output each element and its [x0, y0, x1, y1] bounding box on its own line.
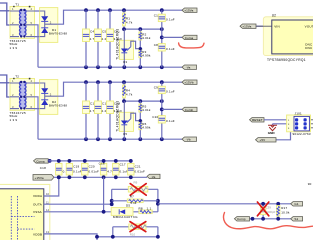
svg-text:0.01uF: 0.01uF [134, 170, 145, 174]
svg-text:MBRA340T3G: MBRA340T3G [113, 215, 138, 219]
svg-text:+15Va: +15Va [35, 176, 44, 180]
svg-text:Comp: Comp [237, 217, 246, 221]
svg-text:G1: G1 [294, 202, 298, 206]
svg-text:BAV70-E3-88: BAV70-E3-88 [49, 103, 67, 107]
svg-text:TPS7B6950QDCYRQ1: TPS7B6950QDCYRQ1 [267, 58, 306, 62]
svg-text:0.01uF: 0.01uF [88, 170, 99, 174]
svg-text:BAV70-E3-88: BAV70-E3-88 [49, 31, 67, 35]
svg-text:10.0k: 10.0k [281, 210, 290, 214]
svg-text:90122-0763: 90122-0763 [293, 132, 311, 136]
svg-text:0.1uF: 0.1uF [166, 17, 175, 21]
svg-text:0.1uF: 0.1uF [119, 170, 128, 174]
svg-text:5.11: 5.11 [130, 201, 137, 205]
svg-text:0.1uF: 0.1uF [166, 89, 175, 93]
svg-text:C18: C18 [40, 166, 46, 170]
svg-text:+15Vb: +15Vb [184, 81, 194, 85]
svg-text:1 3 9: 1 3 9 [10, 118, 18, 122]
svg-text:C19: C19 [73, 165, 79, 169]
svg-text:D5: D5 [126, 203, 130, 207]
svg-text:R10: R10 [130, 233, 136, 237]
svg-text:U3: U3 [123, 60, 127, 64]
svg-text:VOUT: VOUT [305, 24, 313, 28]
svg-text:VDDB: VDDB [33, 232, 42, 236]
svg-text:C21: C21 [135, 165, 141, 169]
svg-text:Coma: Coma [36, 159, 45, 163]
svg-text:OUTA: OUTA [33, 202, 42, 206]
svg-text:TL431AQDBZRQ1: TL431AQDBZRQ1 [116, 101, 120, 132]
svg-text:J101: J101 [295, 111, 302, 115]
svg-text:4.99k: 4.99k [142, 54, 151, 58]
svg-text:C5: C5 [102, 29, 106, 33]
svg-text:0.1uF: 0.1uF [166, 47, 175, 51]
svg-text:0.1uF: 0.1uF [73, 170, 82, 174]
svg-text:1 3 9: 1 3 9 [10, 46, 18, 50]
svg-text:-Va: -Va [151, 175, 156, 179]
svg-text:3.01k: 3.01k [142, 108, 151, 112]
svg-text:R7: R7 [130, 194, 134, 198]
svg-text:S1: S1 [294, 217, 298, 221]
svg-text:-Vb: -Vb [186, 138, 191, 142]
svg-text:10: 10 [46, 192, 49, 196]
svg-text:GND: GND [268, 131, 276, 135]
svg-text:C10: C10 [152, 115, 158, 119]
svg-text:VIN: VIN [274, 24, 280, 28]
svg-text:+15Va: +15Va [184, 9, 193, 13]
svg-text:C17: C17 [120, 162, 126, 166]
svg-text:90: 90 [308, 182, 312, 186]
svg-text:+5V: +5V [260, 138, 267, 142]
svg-text:C8: C8 [154, 43, 158, 47]
svg-text:C20: C20 [89, 165, 95, 169]
svg-text:TL431AQDBZRQ1: TL431AQDBZRQ1 [116, 29, 120, 60]
svg-text:C1: C1 [154, 14, 158, 18]
svg-text:VDDA: VDDA [33, 194, 42, 198]
svg-text:3.01k: 3.01k [142, 36, 151, 40]
svg-text:VSSA: VSSA [33, 210, 42, 214]
svg-text:Comb: Comb [185, 108, 194, 112]
svg-text:4.7k: 4.7k [126, 21, 133, 25]
svg-text:R8: R8 [139, 207, 143, 211]
svg-text:RESET: RESET [252, 118, 263, 122]
svg-text:0.1uF: 0.1uF [166, 119, 175, 123]
svg-text:4.99k: 4.99k [142, 126, 151, 130]
svg-text:U2: U2 [272, 13, 276, 17]
svg-text:R9: R9 [134, 180, 138, 184]
svg-text:C4: C4 [90, 29, 94, 33]
svg-text:U5: U5 [123, 132, 127, 136]
svg-text:-Va: -Va [186, 66, 191, 70]
svg-text:T1: T1 [15, 3, 19, 7]
svg-text:Coma: Coma [185, 36, 194, 40]
svg-text:C9: C9 [154, 86, 158, 90]
svg-text:+15Va: +15Va [242, 25, 251, 29]
svg-text:DNC: DNC [305, 46, 313, 50]
svg-text:1.1: 1.1 [147, 207, 152, 211]
svg-text:4.7k: 4.7k [126, 93, 133, 97]
svg-text:T2: T2 [15, 75, 19, 79]
